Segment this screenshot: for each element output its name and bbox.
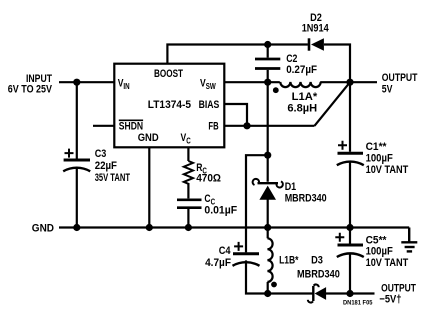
svg-text:C4: C4	[219, 245, 232, 257]
svg-text:6.8µH: 6.8µH	[287, 103, 317, 115]
wire C1 column	[349, 82, 351, 227]
capacitor C3	[63, 149, 90, 172]
capacitor CC	[177, 200, 202, 208]
capacitor C4	[233, 242, 260, 266]
wire VSW column to D1	[267, 82, 269, 182]
wire C5 column	[349, 228, 351, 294]
svg-text:OUTPUT: OUTPUT	[382, 72, 418, 84]
inductor L1B	[267, 238, 272, 282]
capacitor C5	[335, 233, 364, 257]
node C5/-5V output junction	[346, 290, 353, 297]
wire FB diagonal to output	[315, 82, 351, 126]
node C3/GND rail junction	[73, 224, 80, 231]
svg-text:6V TO 25V: 6V TO 25V	[8, 84, 53, 96]
node CC/GND rail junction	[185, 224, 192, 231]
wire L1B leads	[267, 228, 269, 294]
svg-text:C3: C3	[95, 148, 107, 160]
svg-text:BOOST: BOOST	[154, 68, 183, 80]
svg-text:−5V†: −5V†	[379, 293, 401, 305]
svg-text:GND: GND	[32, 222, 54, 234]
wire SHDN stub	[93, 125, 114, 127]
node D1/L1B/GND rail junction	[264, 224, 271, 231]
node A VSW/C2/L1A junction	[264, 79, 271, 86]
svg-text:10V TANT: 10V TANT	[366, 257, 409, 269]
node BIAS/FB junction	[243, 122, 250, 129]
wire D1 to GND rail	[267, 200, 269, 228]
wire L1A to output node	[320, 81, 350, 83]
wire BIAS L-shape	[225, 104, 247, 126]
svg-text:C1**: C1**	[366, 141, 388, 153]
L1A phasing dot	[273, 87, 279, 93]
svg-text:5V: 5V	[382, 83, 393, 95]
diode D2 1N914	[309, 38, 324, 51]
node D1/C4 junction	[264, 152, 271, 159]
svg-text:SHDN: SHDN	[119, 120, 143, 132]
svg-text:D3: D3	[311, 255, 323, 267]
svg-text:100µF: 100µF	[366, 153, 393, 165]
wire GND rail	[59, 226, 409, 228]
node 5V output junction	[346, 79, 353, 86]
wire -5V rail	[268, 292, 375, 294]
svg-text:1N914: 1N914	[302, 23, 330, 35]
wire C3 column	[76, 82, 78, 227]
capacitor C2	[255, 59, 280, 69]
svg-text:470Ω: 470Ω	[196, 172, 221, 184]
L1B phasing dot	[271, 282, 277, 288]
diode D1 MBRD340 (schottky, pointing up)	[253, 179, 283, 200]
wire output 5V	[350, 81, 377, 83]
svg-text:100µF: 100µF	[366, 246, 393, 258]
capacitor C1	[337, 141, 364, 166]
svg-text:0.01µF: 0.01µF	[204, 204, 237, 216]
wire C2 column	[267, 45, 269, 83]
resistor RC	[184, 161, 193, 184]
svg-text:BIAS: BIAS	[199, 99, 220, 111]
inductor L1A	[280, 82, 320, 87]
node input/C3 junction	[73, 79, 80, 86]
diode D3 MBRD340 (schottky, pointing left)	[308, 284, 326, 302]
svg-text:35V TANT: 35V TANT	[95, 172, 130, 184]
svg-text:FB: FB	[208, 120, 218, 132]
svg-text:L1B*: L1B*	[279, 255, 299, 267]
wire VSW to node A	[225, 81, 280, 83]
svg-text:LT1374-5: LT1374-5	[148, 99, 191, 111]
svg-text:0.27µF: 0.27µF	[286, 64, 317, 76]
svg-text:MBRD340: MBRD340	[297, 269, 340, 281]
svg-text:L1A*: L1A*	[292, 91, 318, 103]
svg-text:GND: GND	[138, 132, 159, 144]
wire input	[59, 81, 114, 83]
wire VC pin column	[187, 147, 189, 228]
svg-text:10V TANT: 10V TANT	[366, 164, 409, 176]
node GND pin/rail junction	[146, 224, 153, 231]
ground	[401, 228, 417, 252]
svg-text:DN181 F05: DN181 F05	[343, 301, 373, 307]
svg-text:22µF: 22µF	[95, 160, 118, 172]
svg-text:4.7µF: 4.7µF	[205, 257, 231, 269]
op-amp U1 : IC box LT1374-5	[114, 64, 224, 148]
node boost rail/C2 junction	[264, 41, 271, 48]
wire BOOST up and top rail	[167, 45, 350, 83]
svg-text:D1: D1	[285, 181, 297, 193]
svg-text:MBRD340: MBRD340	[285, 193, 327, 205]
wire GND pin column	[148, 147, 150, 228]
node L1B/-5V rail junction	[264, 290, 271, 297]
wire jog to C4	[246, 155, 268, 293]
node C1/C5/GND rail junction	[346, 224, 353, 231]
wire FB horizontal	[225, 125, 315, 127]
